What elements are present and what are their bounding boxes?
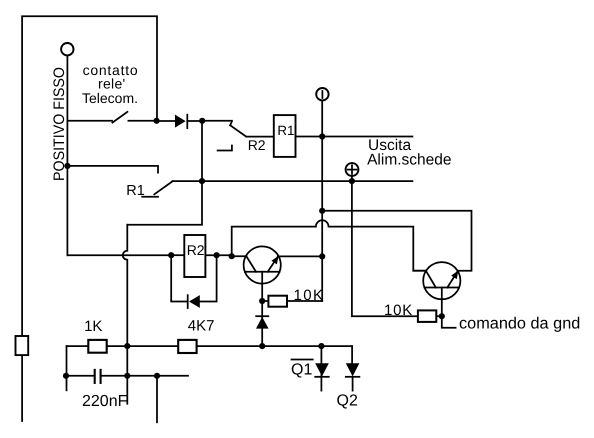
wire vertical drop to bottom rail bbox=[123, 225, 128, 404]
svg-text:Q2: Q2 bbox=[337, 392, 358, 409]
diode D2 on T1 base lead bbox=[256, 315, 268, 317]
resistor 1K bbox=[88, 340, 106, 353]
wire branch down bbox=[156, 376, 158, 423]
diode D3 flyback across R2 coil bbox=[171, 255, 188, 301]
node junction cap left bbox=[63, 373, 69, 379]
node junction T2 base / 10K right bbox=[439, 313, 445, 319]
node junction coil left bbox=[168, 252, 174, 258]
wire R1 coil to output line 1 bbox=[296, 136, 413, 138]
node junction cap wire branch bbox=[154, 373, 160, 379]
svg-text:Alim.schede: Alim.schede bbox=[367, 151, 451, 168]
svg-text:Telecom.: Telecom. bbox=[82, 90, 138, 106]
wire terminal vertical rail bbox=[321, 101, 323, 301]
wire outer frame left/top bbox=[22, 16, 157, 421]
capacitor 220nF wire bbox=[66, 375, 93, 377]
resistor 10K left bbox=[262, 300, 268, 302]
svg-text:R2: R2 bbox=[248, 137, 266, 153]
node junction T1 emitter wire bbox=[229, 253, 235, 259]
svg-text:POSITIVO FISSO: POSITIVO FISSO bbox=[51, 67, 68, 181]
diode D1 bbox=[157, 120, 175, 122]
svg-text:R1: R1 bbox=[126, 183, 145, 199]
svg-text:220nF: 220nF bbox=[82, 393, 128, 410]
resistor 10K right bbox=[418, 310, 436, 322]
wire vertical from diode node down to R2 coil row bbox=[127, 121, 202, 225]
switch contatto rele' Telecom. bbox=[67, 120, 112, 122]
wire positive rail vertical bbox=[66, 56, 68, 256]
node junction rail/T1 collector bbox=[319, 253, 325, 259]
node junction positive rail / R1 contact feed bbox=[64, 163, 70, 169]
wire T2 base lead down to comando bbox=[442, 288, 456, 328]
node junction output line 1 bbox=[319, 133, 325, 139]
svg-text:10K: 10K bbox=[294, 287, 325, 304]
diode Q2 bbox=[351, 346, 353, 363]
svg-text:R2: R2 bbox=[187, 242, 205, 258]
node junction cap right / vertical bbox=[124, 373, 130, 379]
relay coil R1 bbox=[274, 115, 296, 157]
node junction bottom rail / vertical bbox=[124, 343, 130, 349]
svg-text:R1: R1 bbox=[277, 123, 294, 138]
wire plus terminal down to 10K right bbox=[352, 176, 418, 316]
node junction bottom rail / Q1 bbox=[318, 343, 324, 349]
transistor T2 bbox=[423, 262, 460, 299]
terminal circle POSITIVO FISSO bbox=[61, 43, 73, 55]
resistor 4K7 bbox=[178, 340, 196, 353]
relay coil R2 bbox=[171, 254, 184, 256]
terminal circle plus bbox=[346, 163, 359, 176]
transistor T1 bbox=[244, 246, 281, 283]
wire output line 2 bbox=[172, 180, 412, 182]
wire T1 base lead down bbox=[261, 272, 263, 346]
resistor Rv vertical on left rail bbox=[16, 336, 29, 355]
node junction base/10K bbox=[259, 298, 265, 304]
node junction rail/line2 bbox=[319, 208, 325, 214]
wire T1 emitter node up and across with hop to T2 bbox=[232, 220, 427, 270]
node junction coil right bbox=[214, 252, 220, 258]
node junction bottom rail / D2 bbox=[259, 343, 265, 349]
switch contact R2 bbox=[202, 120, 232, 122]
overline Q1 bbox=[292, 359, 313, 361]
node junction diode output bbox=[199, 118, 205, 124]
node junction R1 contact / vertical bbox=[199, 178, 205, 184]
switch contact R1 bbox=[67, 166, 158, 173]
wire line 2 from rail to T2 bbox=[322, 211, 471, 271]
wire positive rail to R2 coil with hop bbox=[67, 254, 171, 256]
svg-text:10K: 10K bbox=[384, 302, 413, 319]
svg-text:Q1: Q1 bbox=[291, 361, 312, 378]
svg-text:1K: 1K bbox=[84, 318, 102, 335]
terminal circle with bar bbox=[316, 88, 328, 100]
svg-text:comando da gnd: comando da gnd bbox=[459, 315, 580, 333]
node junction plus/output line 2 bbox=[349, 178, 355, 184]
wire bottom rail bbox=[67, 345, 353, 347]
diode Q1 bbox=[320, 346, 322, 391]
svg-text:4K7: 4K7 bbox=[188, 317, 215, 334]
node junction at frame drop bbox=[154, 118, 160, 124]
